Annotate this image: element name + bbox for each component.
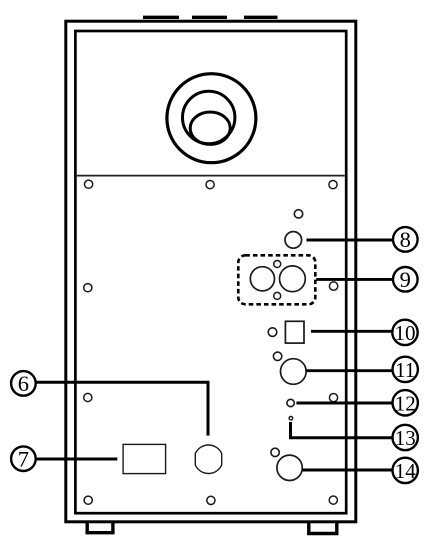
item 9 left circle [250, 267, 274, 291]
screw bottom-right [329, 496, 337, 504]
item 8 port circle [285, 232, 302, 249]
screw top-right [329, 181, 337, 189]
svg-text:14: 14 [395, 459, 417, 483]
screw above item 14 [271, 448, 279, 456]
item 9 small bottom circle [274, 292, 281, 299]
leader line 8 [307, 239, 394, 242]
item 9 small top circle [274, 261, 281, 268]
callout 8 [393, 227, 418, 252]
callout 13 [393, 425, 418, 450]
cabinet inner outline [75, 31, 346, 513]
leader line 14 [303, 469, 394, 472]
cabinet outer outline [66, 21, 356, 522]
top hinge dash 1 [143, 16, 179, 19]
screw top-middle [206, 181, 214, 189]
svg-text:12: 12 [395, 391, 416, 415]
screw right of item 12 [329, 394, 337, 402]
item 9 dashed box [238, 255, 315, 304]
leader line 10 [311, 330, 393, 333]
screw bottom-left [84, 496, 92, 504]
callout 9 [393, 267, 418, 292]
item 7 rectangle [123, 444, 166, 473]
screw right of dashed box [329, 282, 337, 290]
leader line 9 [316, 278, 393, 281]
svg-text:13: 13 [395, 426, 416, 450]
flue inner pipe [190, 112, 230, 144]
callout 10 [392, 320, 417, 345]
panel seam line [77, 175, 345, 177]
svg-text:6: 6 [18, 371, 29, 396]
leader line 7 [36, 458, 117, 461]
leader line 11 [306, 369, 393, 372]
item 9 right circle [280, 266, 306, 292]
right foot [309, 523, 337, 534]
item 6 cable gland [195, 445, 221, 473]
item 11 circle port [281, 359, 307, 385]
callout 12 [393, 390, 418, 415]
svg-text:8: 8 [400, 227, 411, 252]
leader line 12 [296, 402, 393, 405]
callout 6 [11, 371, 36, 396]
callout 7 [11, 446, 36, 471]
leader line 13 [291, 422, 394, 438]
callout 11 [393, 357, 418, 382]
screw left of item 10 [268, 328, 277, 337]
screw top-left [85, 180, 93, 188]
leader line 6 [36, 382, 208, 435]
callout 14 [393, 458, 418, 483]
screw left-upper [84, 284, 92, 292]
item 12 small circle [287, 399, 294, 406]
top hinge dash 2 [192, 16, 227, 19]
svg-text:9: 9 [400, 267, 411, 292]
screw bottom-middle [207, 496, 215, 504]
flue middle circle [183, 91, 235, 143]
svg-text:11: 11 [395, 358, 415, 382]
left foot [87, 523, 113, 533]
screw left-lower [84, 393, 92, 401]
item 13 pin dot [289, 416, 293, 420]
screw above item 8 [294, 210, 302, 218]
item 14 circle port [277, 455, 302, 480]
flue outer circle [167, 74, 256, 163]
top hinge dash 3 [244, 16, 278, 19]
item 10 square port [285, 321, 304, 343]
svg-text:7: 7 [18, 447, 29, 472]
svg-text:10: 10 [395, 321, 416, 345]
screw above item 11 [273, 352, 281, 360]
